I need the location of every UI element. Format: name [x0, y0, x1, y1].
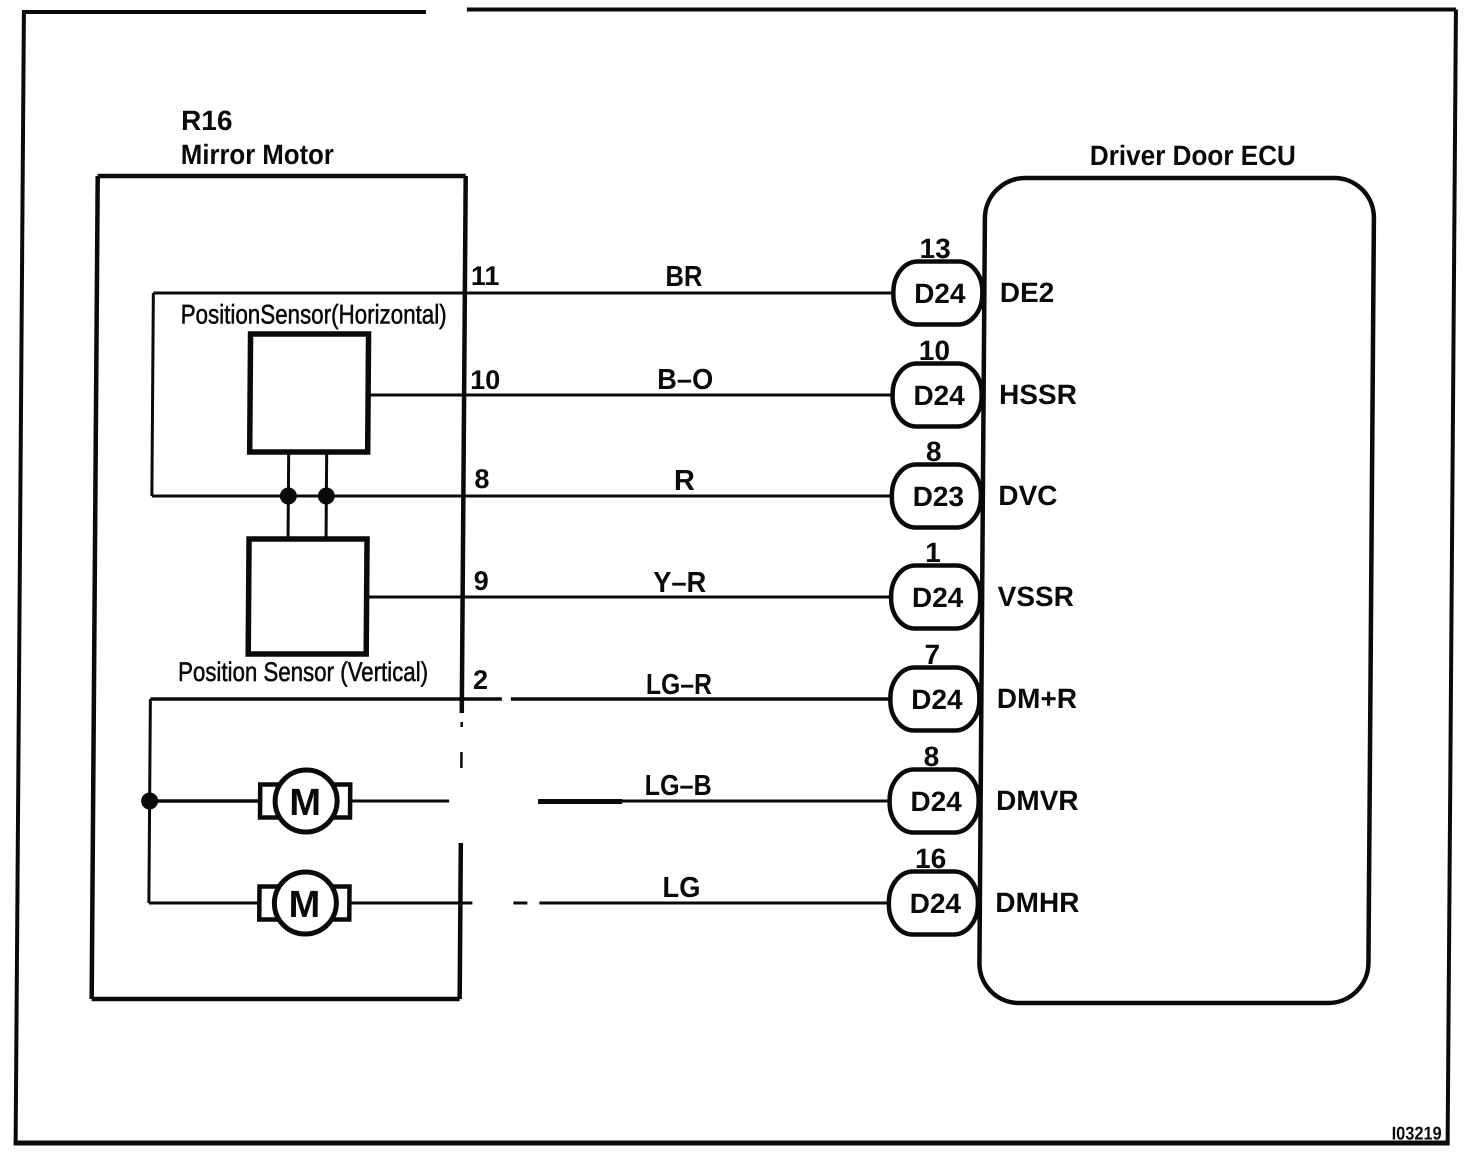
svg-text:M: M	[289, 782, 321, 824]
svg-text:10: 10	[919, 335, 950, 366]
connector D24 pin7	[890, 668, 979, 731]
svg-text:DE2: DE2	[1000, 277, 1055, 308]
connector D24 pin1	[891, 566, 980, 629]
mirror motor box R16	[92, 176, 466, 999]
svg-text:8: 8	[926, 436, 942, 467]
svg-text:DMHR: DMHR	[995, 887, 1079, 918]
wire pin9 Y-R row	[367, 596, 892, 599]
wire motor2 right / LG row	[349, 902, 890, 905]
svg-text:13: 13	[919, 233, 950, 264]
svg-text:Mirror Motor: Mirror Motor	[181, 139, 334, 170]
svg-text:11: 11	[471, 261, 500, 291]
svg-text:HSSR: HSSR	[999, 379, 1077, 410]
svg-text:8: 8	[474, 464, 489, 494]
junction dot right	[318, 488, 335, 505]
svg-text:R16: R16	[181, 105, 233, 136]
svg-text:16: 16	[915, 843, 946, 874]
svg-text:LG–B: LG–B	[645, 770, 712, 802]
svg-text:8: 8	[924, 741, 940, 772]
svg-text:M: M	[288, 884, 320, 926]
svg-text:R: R	[674, 465, 695, 497]
svg-text:LG: LG	[662, 872, 700, 904]
wire enclosure left vertical	[152, 293, 153, 496]
svg-text:Y–R: Y–R	[653, 567, 706, 599]
motor M1 circle	[275, 770, 337, 832]
wire motor2 left	[149, 902, 260, 905]
svg-text:D24: D24	[911, 684, 963, 715]
motor M1 terminals	[260, 785, 350, 818]
connector D23 pin8	[892, 465, 981, 528]
svg-text:VSSR: VSSR	[998, 581, 1074, 612]
svg-text:BR: BR	[665, 261, 702, 293]
svg-text:LG–R: LG–R	[646, 669, 712, 701]
position sensor vertical box	[248, 539, 367, 654]
svg-text:D24: D24	[910, 786, 962, 817]
ECU box	[979, 178, 1374, 1003]
svg-text:I03219: I03219	[1392, 1123, 1442, 1144]
svg-text:DM+R: DM+R	[997, 683, 1077, 714]
svg-text:Position Sensor (Vertical): Position Sensor (Vertical)	[178, 657, 428, 687]
svg-text:D24: D24	[912, 582, 964, 613]
connector D24 pin13	[893, 262, 982, 325]
svg-text:D24: D24	[910, 888, 962, 919]
svg-text:Driver Door ECU: Driver Door ECU	[1090, 140, 1296, 171]
wire sensor vertical link right	[325, 452, 329, 539]
svg-text:2: 2	[473, 665, 488, 695]
junction dot left	[280, 488, 297, 505]
wire pin10 B-O row	[368, 394, 893, 397]
svg-text:PositionSensor(Horizontal): PositionSensor(Horizontal)	[181, 300, 447, 330]
junction dot motor feed	[141, 793, 158, 810]
connector D24 pin8	[889, 770, 978, 833]
motor M2 circle	[274, 872, 336, 934]
svg-text:DMVR: DMVR	[996, 785, 1079, 816]
wire pin2 LG-R row	[150, 697, 891, 701]
svg-text:DVC: DVC	[998, 480, 1057, 511]
wire pin8 R row: enclosure bottom	[152, 495, 893, 498]
svg-text:9: 9	[474, 566, 489, 596]
connector D24 pin16	[889, 872, 978, 935]
svg-text:1: 1	[925, 537, 941, 568]
svg-text:D24: D24	[913, 380, 965, 411]
svg-text:D23: D23	[913, 481, 965, 512]
wire motor feed left vertical	[149, 699, 150, 903]
svg-text:10: 10	[470, 365, 500, 395]
motor M2 terminals	[259, 887, 349, 920]
wire motor1 right / LG-B row	[350, 800, 890, 803]
svg-text:D24: D24	[914, 278, 966, 309]
connector D24 pin10	[892, 364, 981, 427]
svg-text:7: 7	[924, 639, 940, 670]
position sensor horizontal box	[250, 334, 369, 452]
svg-text:B–O: B–O	[657, 364, 713, 396]
wire pin11 BR row: enclosure top	[153, 292, 894, 295]
wire sensor vertical link left	[287, 452, 291, 539]
wire motor1 left	[150, 799, 261, 803]
